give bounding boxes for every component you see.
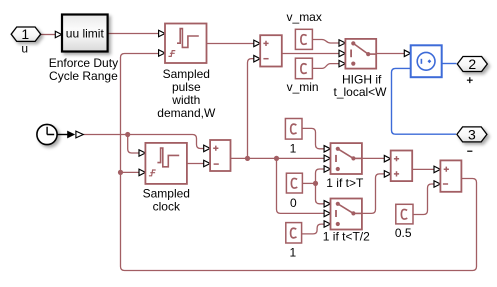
svg-text:t_local<W: t_local<W — [333, 85, 387, 99]
svg-text:0: 0 — [290, 196, 297, 210]
svg-text:uu limit: uu limit — [66, 26, 105, 40]
svg-text:3: 3 — [468, 126, 476, 142]
svg-text:width: width — [171, 93, 200, 107]
svg-text:u: u — [21, 42, 28, 56]
svg-text:demand,W: demand,W — [157, 106, 216, 120]
svg-text:1 if t>T: 1 if t>T — [326, 176, 364, 190]
svg-text:1: 1 — [289, 245, 296, 259]
svg-text:Sampled: Sampled — [163, 67, 210, 81]
svg-text:1: 1 — [290, 141, 297, 155]
svg-text:Sampled: Sampled — [143, 187, 190, 201]
svg-text:Cycle Range: Cycle Range — [49, 69, 118, 83]
svg-text:pulse: pulse — [172, 80, 201, 94]
svg-text:Enforce Duty: Enforce Duty — [49, 56, 118, 70]
svg-text:0.5: 0.5 — [395, 226, 412, 240]
svg-text:1: 1 — [21, 26, 29, 42]
svg-text:clock: clock — [153, 200, 181, 214]
svg-text:2: 2 — [468, 56, 476, 72]
svg-text:v_max: v_max — [287, 10, 322, 24]
svg-text:1 if t<T/2: 1 if t<T/2 — [323, 230, 370, 244]
svg-text:v_min: v_min — [287, 80, 319, 94]
